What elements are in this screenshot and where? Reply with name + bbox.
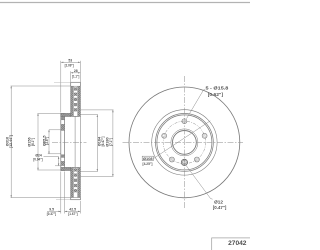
svg-text:Ø108: Ø108 <box>143 157 153 161</box>
svg-text:[0.62"]: [0.62"] <box>208 92 224 97</box>
svg-text:[0.37"]: [0.37"] <box>47 212 56 216</box>
svg-text:[6.47"]: [6.47"] <box>101 137 105 147</box>
svg-text:42.5: 42.5 <box>69 207 76 211</box>
svg-text:[4.25"]: [4.25"] <box>143 162 154 166</box>
svg-text:[1.1"]: [1.1"] <box>72 75 79 79</box>
svg-text:[0.94"]: [0.94"] <box>33 157 42 161</box>
svg-text:27042: 27042 <box>228 240 247 247</box>
svg-text:[6.1"]: [6.1"] <box>31 138 35 146</box>
svg-text:9.5: 9.5 <box>49 207 54 211</box>
svg-text:53: 53 <box>68 58 72 62</box>
svg-text:28: 28 <box>74 69 78 73</box>
svg-text:[2.6"]: [2.6"] <box>45 137 49 145</box>
svg-text:5 - Ø15.8: 5 - Ø15.8 <box>206 86 229 91</box>
svg-text:[12.44"]: [12.44"] <box>9 135 13 148</box>
svg-text:[7.1"]: [7.1"] <box>109 138 113 146</box>
svg-text:[1.67"]: [1.67"] <box>68 212 77 216</box>
svg-text:[0.47"]: [0.47"] <box>213 205 227 210</box>
svg-text:[2.09"]: [2.09"] <box>65 64 74 68</box>
svg-text:Ø12: Ø12 <box>214 199 223 204</box>
